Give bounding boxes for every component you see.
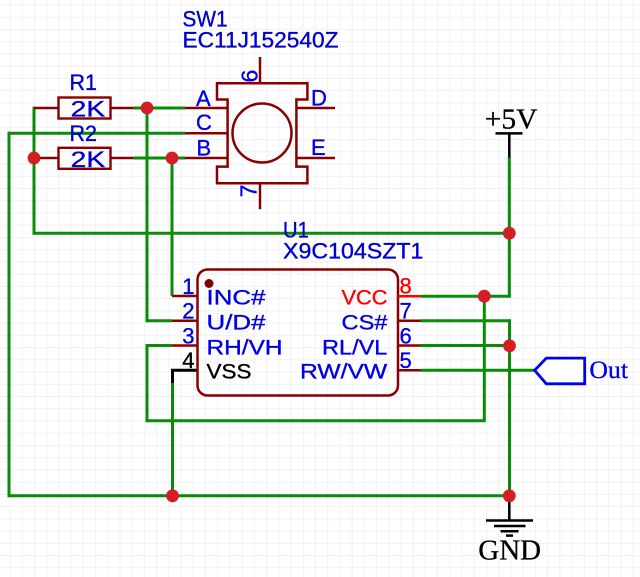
svg-text:R1: R1 bbox=[70, 70, 98, 95]
svg-text:6: 6 bbox=[400, 323, 412, 348]
svg-text:D: D bbox=[311, 86, 327, 111]
U1 pin 1 bbox=[172, 295, 198, 298]
svg-text:C: C bbox=[196, 110, 212, 135]
svg-text:CS#: CS# bbox=[342, 312, 388, 335]
svg-text:RL/VL: RL/VL bbox=[322, 336, 387, 359]
wire pin3 RH/VH horizontal bbox=[146, 344, 172, 347]
wire node A down to U1 pin2 bbox=[146, 107, 149, 323]
wire pin5 RW/VW to Out port bbox=[421, 369, 535, 372]
SW1 pin D bbox=[296, 107, 335, 110]
svg-text:4: 4 bbox=[182, 348, 194, 373]
svg-text:EC11J152540Z: EC11J152540Z bbox=[183, 27, 339, 52]
SW1 pin 7 bottom bbox=[259, 183, 262, 209]
svg-text:VSS: VSS bbox=[207, 361, 252, 384]
SW1 pin C bbox=[185, 132, 228, 135]
SW1 pin B bbox=[185, 157, 228, 160]
junction VSS to GND rail bbox=[166, 489, 179, 502]
wire +5V long horizontal rail bbox=[33, 232, 510, 235]
wire +5V vertical drop bbox=[508, 157, 511, 298]
U1 pin 2 bbox=[172, 320, 198, 323]
U1 pin 3 bbox=[172, 344, 198, 347]
wire lower horizontal VCC link bbox=[146, 419, 485, 422]
SW1 pin A bbox=[185, 107, 228, 110]
wire +5V feeder vertical from R1/R2 left bbox=[33, 107, 36, 235]
wire CS#/RL vertical down to GND rail bbox=[508, 319, 511, 495]
svg-text:2: 2 bbox=[182, 299, 194, 324]
svg-text:E: E bbox=[311, 135, 326, 160]
wire left edge vertical GND net bbox=[8, 132, 11, 497]
ground GND symbol bbox=[486, 496, 533, 536]
svg-text:5: 5 bbox=[400, 348, 412, 373]
switch SW1 encoder body bbox=[217, 83, 307, 183]
SW1 pin E bbox=[296, 157, 335, 160]
svg-text:+5V: +5V bbox=[485, 104, 538, 136]
junction pin6 RL/VL bbox=[503, 339, 516, 352]
wire VSS black elbow vertical bbox=[171, 370, 174, 383]
svg-text:2K: 2K bbox=[71, 96, 106, 121]
svg-text:B: B bbox=[197, 136, 212, 161]
wire pin3 vertical down bbox=[146, 344, 149, 422]
svg-text:1: 1 bbox=[182, 274, 194, 299]
resistor R1 bbox=[34, 98, 134, 119]
wire pin6 RL/VL horizontal bbox=[421, 344, 510, 347]
wire U/D# horizontal to pin2 bbox=[146, 319, 172, 322]
junction R2 left bbox=[28, 152, 41, 165]
U1 pin 8 (VCC, red) bbox=[398, 295, 421, 298]
wire VSS green vertical bbox=[171, 382, 174, 497]
wire R1 right to encoder A bbox=[134, 107, 185, 110]
junction pin8 VCC bbox=[478, 290, 491, 303]
wire pin8 VCC horizontal bbox=[421, 295, 511, 298]
svg-text:8: 8 bbox=[400, 274, 412, 299]
svg-text:7: 7 bbox=[400, 299, 412, 324]
U1 pin 5 bbox=[398, 369, 421, 372]
svg-text:6: 6 bbox=[237, 70, 263, 83]
svg-text:3: 3 bbox=[182, 323, 194, 348]
junction node B / R2 right bbox=[166, 152, 179, 165]
junction GND symbol bbox=[503, 489, 516, 502]
SW1 pin 6 top bbox=[259, 57, 262, 83]
U1 pin 7 bbox=[398, 320, 421, 323]
SW1 rotor circle bbox=[233, 104, 292, 163]
power +5V symbol bbox=[496, 133, 523, 157]
junction node A / R1 right bbox=[141, 102, 154, 115]
node Out port bbox=[535, 358, 585, 384]
svg-text:U/D#: U/D# bbox=[207, 312, 266, 335]
svg-text:GND: GND bbox=[478, 535, 541, 567]
wire VCC link vertical up to pin8 junction bbox=[483, 296, 486, 422]
wire VSS black elbow horizontal bbox=[171, 369, 198, 372]
wire R2 right to encoder B bbox=[134, 157, 185, 160]
op-amp U1 body bbox=[198, 270, 399, 396]
wire node B down to U1 pin1 bbox=[171, 158, 174, 296]
svg-text:RW/VW: RW/VW bbox=[300, 361, 387, 384]
svg-text:R2: R2 bbox=[70, 121, 98, 146]
svg-text:RH/VH: RH/VH bbox=[207, 336, 283, 359]
resistor R2 bbox=[34, 148, 134, 169]
U1 pin 6 bbox=[398, 344, 421, 347]
svg-text:7: 7 bbox=[236, 185, 262, 198]
svg-text:A: A bbox=[196, 86, 211, 111]
junction +5V rail bbox=[503, 227, 516, 240]
U1 pin1 mark dot bbox=[205, 279, 214, 288]
wire encoder C to left bbox=[8, 132, 185, 135]
svg-text:Out: Out bbox=[589, 357, 628, 384]
svg-text:VCC: VCC bbox=[342, 287, 388, 310]
wire bottom horizontal GND net bbox=[8, 494, 510, 497]
svg-text:X9C104SZT1: X9C104SZT1 bbox=[283, 238, 423, 263]
svg-text:INC#: INC# bbox=[207, 287, 266, 310]
wire pin7 CS# horizontal bbox=[421, 319, 511, 322]
svg-text:2K: 2K bbox=[71, 147, 106, 172]
